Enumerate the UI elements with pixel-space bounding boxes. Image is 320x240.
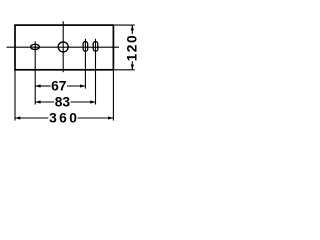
- oval hole: [31, 44, 40, 49]
- circle vertical center line: [62, 21, 64, 72]
- left edge extension line down: [14, 70, 16, 121]
- svg-text:360: 360: [49, 111, 79, 126]
- dimension 120 top arrowhead: [131, 25, 134, 30]
- dimension 360 line left segment: [15, 117, 48, 119]
- svg-text:120: 120: [125, 34, 140, 62]
- dimension 120 bottom extension line: [114, 69, 135, 71]
- slot 2 center line / extension line: [95, 39, 97, 105]
- slot 2: [93, 42, 98, 52]
- dimension 360 line right segment: [78, 117, 114, 119]
- svg-text:83: 83: [55, 95, 71, 110]
- dimension 360 left arrowhead: [15, 116, 20, 119]
- dimension 120 line top segment: [131, 25, 133, 34]
- plate outline rectangle: [15, 25, 113, 70]
- dimension 67 right arrowhead: [80, 84, 85, 87]
- dimension 120 line bottom segment: [131, 61, 133, 70]
- dimension 83 right arrowhead: [90, 100, 95, 103]
- center hole circle: [58, 42, 68, 52]
- slot 1 center line / extension line: [84, 39, 86, 89]
- dimension 83 line right segment: [71, 101, 96, 103]
- oval hole center line / extension line: [34, 41, 36, 104]
- slot 1: [83, 42, 88, 52]
- dimension 67 left arrowhead: [35, 84, 40, 87]
- right edge extension line down: [112, 70, 114, 121]
- dimension 83 left arrowhead: [35, 100, 40, 103]
- dimension 120 bottom arrowhead: [131, 65, 134, 70]
- dimension 120 top extension line: [114, 24, 135, 26]
- dimension 83 line left segment: [35, 101, 54, 103]
- dimension 67 line left segment: [35, 85, 50, 87]
- dimension 67 line right segment: [67, 85, 86, 87]
- dimension 360 right arrowhead: [108, 116, 113, 119]
- svg-text:67: 67: [51, 79, 67, 94]
- horizontal center line: [7, 46, 120, 48]
